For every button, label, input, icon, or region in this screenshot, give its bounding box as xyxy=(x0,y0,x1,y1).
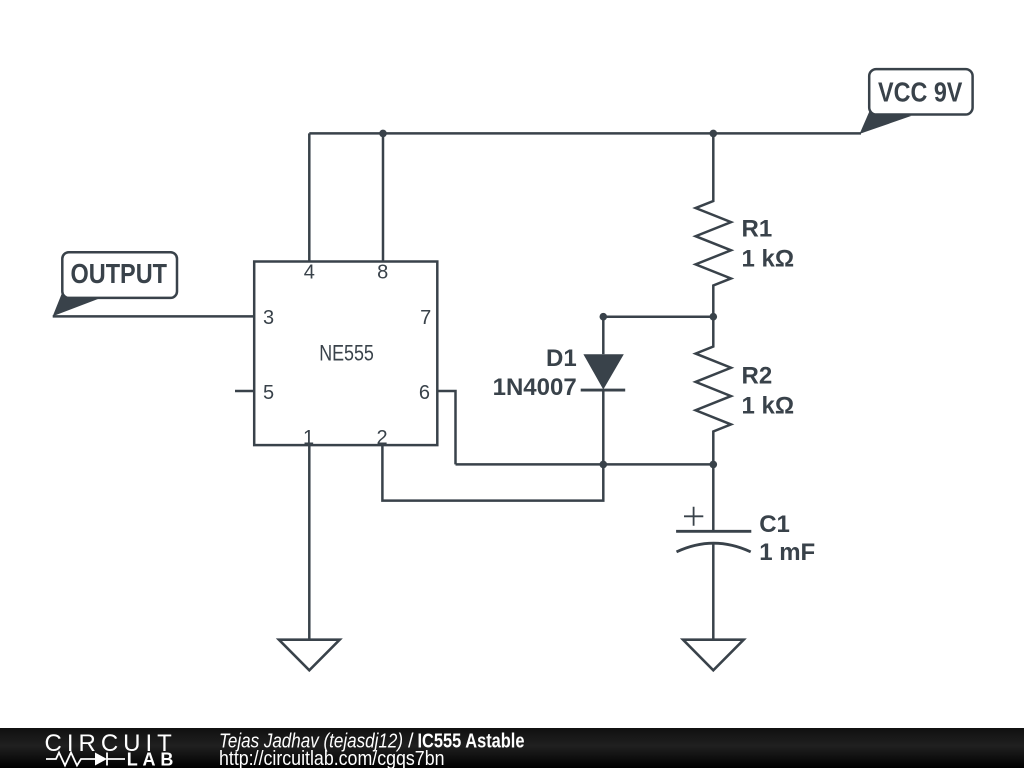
svg-text:4: 4 xyxy=(304,262,315,284)
junction dot R1 bottom xyxy=(710,313,718,321)
footer url text xyxy=(219,748,445,768)
label R1 xyxy=(742,216,795,273)
junction dot R2 bottom xyxy=(710,461,718,469)
wire pin 5 stub xyxy=(235,390,254,393)
svg-text:6: 6 xyxy=(419,382,430,404)
label C1 xyxy=(759,511,815,566)
wire pin 4 riser xyxy=(308,133,311,261)
wire pin 3 output xyxy=(53,315,255,318)
diode D1 xyxy=(581,317,626,465)
junction dot diode top xyxy=(600,313,608,321)
resistor R1 xyxy=(696,133,731,316)
svg-text:8: 8 xyxy=(377,262,388,284)
svg-text:OUTPUT: OUTPUT xyxy=(71,258,168,289)
capacitor C1 xyxy=(676,464,751,639)
svg-text:7: 7 xyxy=(420,307,431,329)
junction dot diode bottom xyxy=(600,461,608,469)
svg-text:1N4007: 1N4007 xyxy=(493,374,577,401)
wire pin 8 riser xyxy=(382,133,385,261)
pin number 8 xyxy=(377,262,388,284)
svg-text:1 kΩ: 1 kΩ xyxy=(742,393,795,420)
label R2 xyxy=(742,363,795,420)
svg-text:C1: C1 xyxy=(759,511,790,538)
svg-text:5: 5 xyxy=(263,382,274,404)
svg-text:VCC 9V: VCC 9V xyxy=(878,76,963,107)
svg-text:http://circuitlab.com/cgqs7bn: http://circuitlab.com/cgqs7bn xyxy=(219,748,445,768)
svg-text:1: 1 xyxy=(303,427,314,449)
footer title text xyxy=(219,731,525,753)
wire pin 1 xyxy=(308,445,311,640)
wire VCC top rail xyxy=(309,132,861,135)
pin number 2 xyxy=(376,427,387,449)
pin number 6 xyxy=(419,382,430,404)
pin number 4 xyxy=(304,262,315,284)
pin number 5 xyxy=(263,382,274,404)
junction dot R1/VCC xyxy=(710,130,718,138)
svg-text:3: 3 xyxy=(263,307,274,329)
pin number 3 xyxy=(263,307,274,329)
svg-text:1 mF: 1 mF xyxy=(759,539,815,566)
wire bottom node (pin6 rail) xyxy=(456,463,714,466)
svg-text:R2: R2 xyxy=(742,363,773,390)
CircuitLab logo xyxy=(45,730,174,768)
wire mid node (pin7 node to R1 bottom) xyxy=(603,315,713,318)
pin number 1 xyxy=(303,427,314,449)
ground left xyxy=(279,640,340,671)
svg-text:LAB: LAB xyxy=(127,750,174,768)
svg-text:NE555: NE555 xyxy=(319,341,374,366)
svg-text:R1: R1 xyxy=(742,216,773,243)
ground right xyxy=(683,640,744,671)
label D1 xyxy=(493,345,577,401)
footer bar xyxy=(0,728,1024,768)
junction dot pin8/VCC xyxy=(379,130,387,138)
node VCC 9V flag xyxy=(860,69,973,134)
resistor R2 xyxy=(696,317,731,465)
pin number 7 xyxy=(420,307,431,329)
svg-text:2: 2 xyxy=(376,427,387,449)
svg-text:D1: D1 xyxy=(546,345,577,372)
wire pin 2 xyxy=(382,445,603,501)
wire pin 6 xyxy=(437,391,455,464)
op-amp U1 NE555 box xyxy=(254,262,437,446)
svg-text:1 kΩ: 1 kΩ xyxy=(742,245,795,272)
node OUTPUT flag xyxy=(53,252,177,316)
